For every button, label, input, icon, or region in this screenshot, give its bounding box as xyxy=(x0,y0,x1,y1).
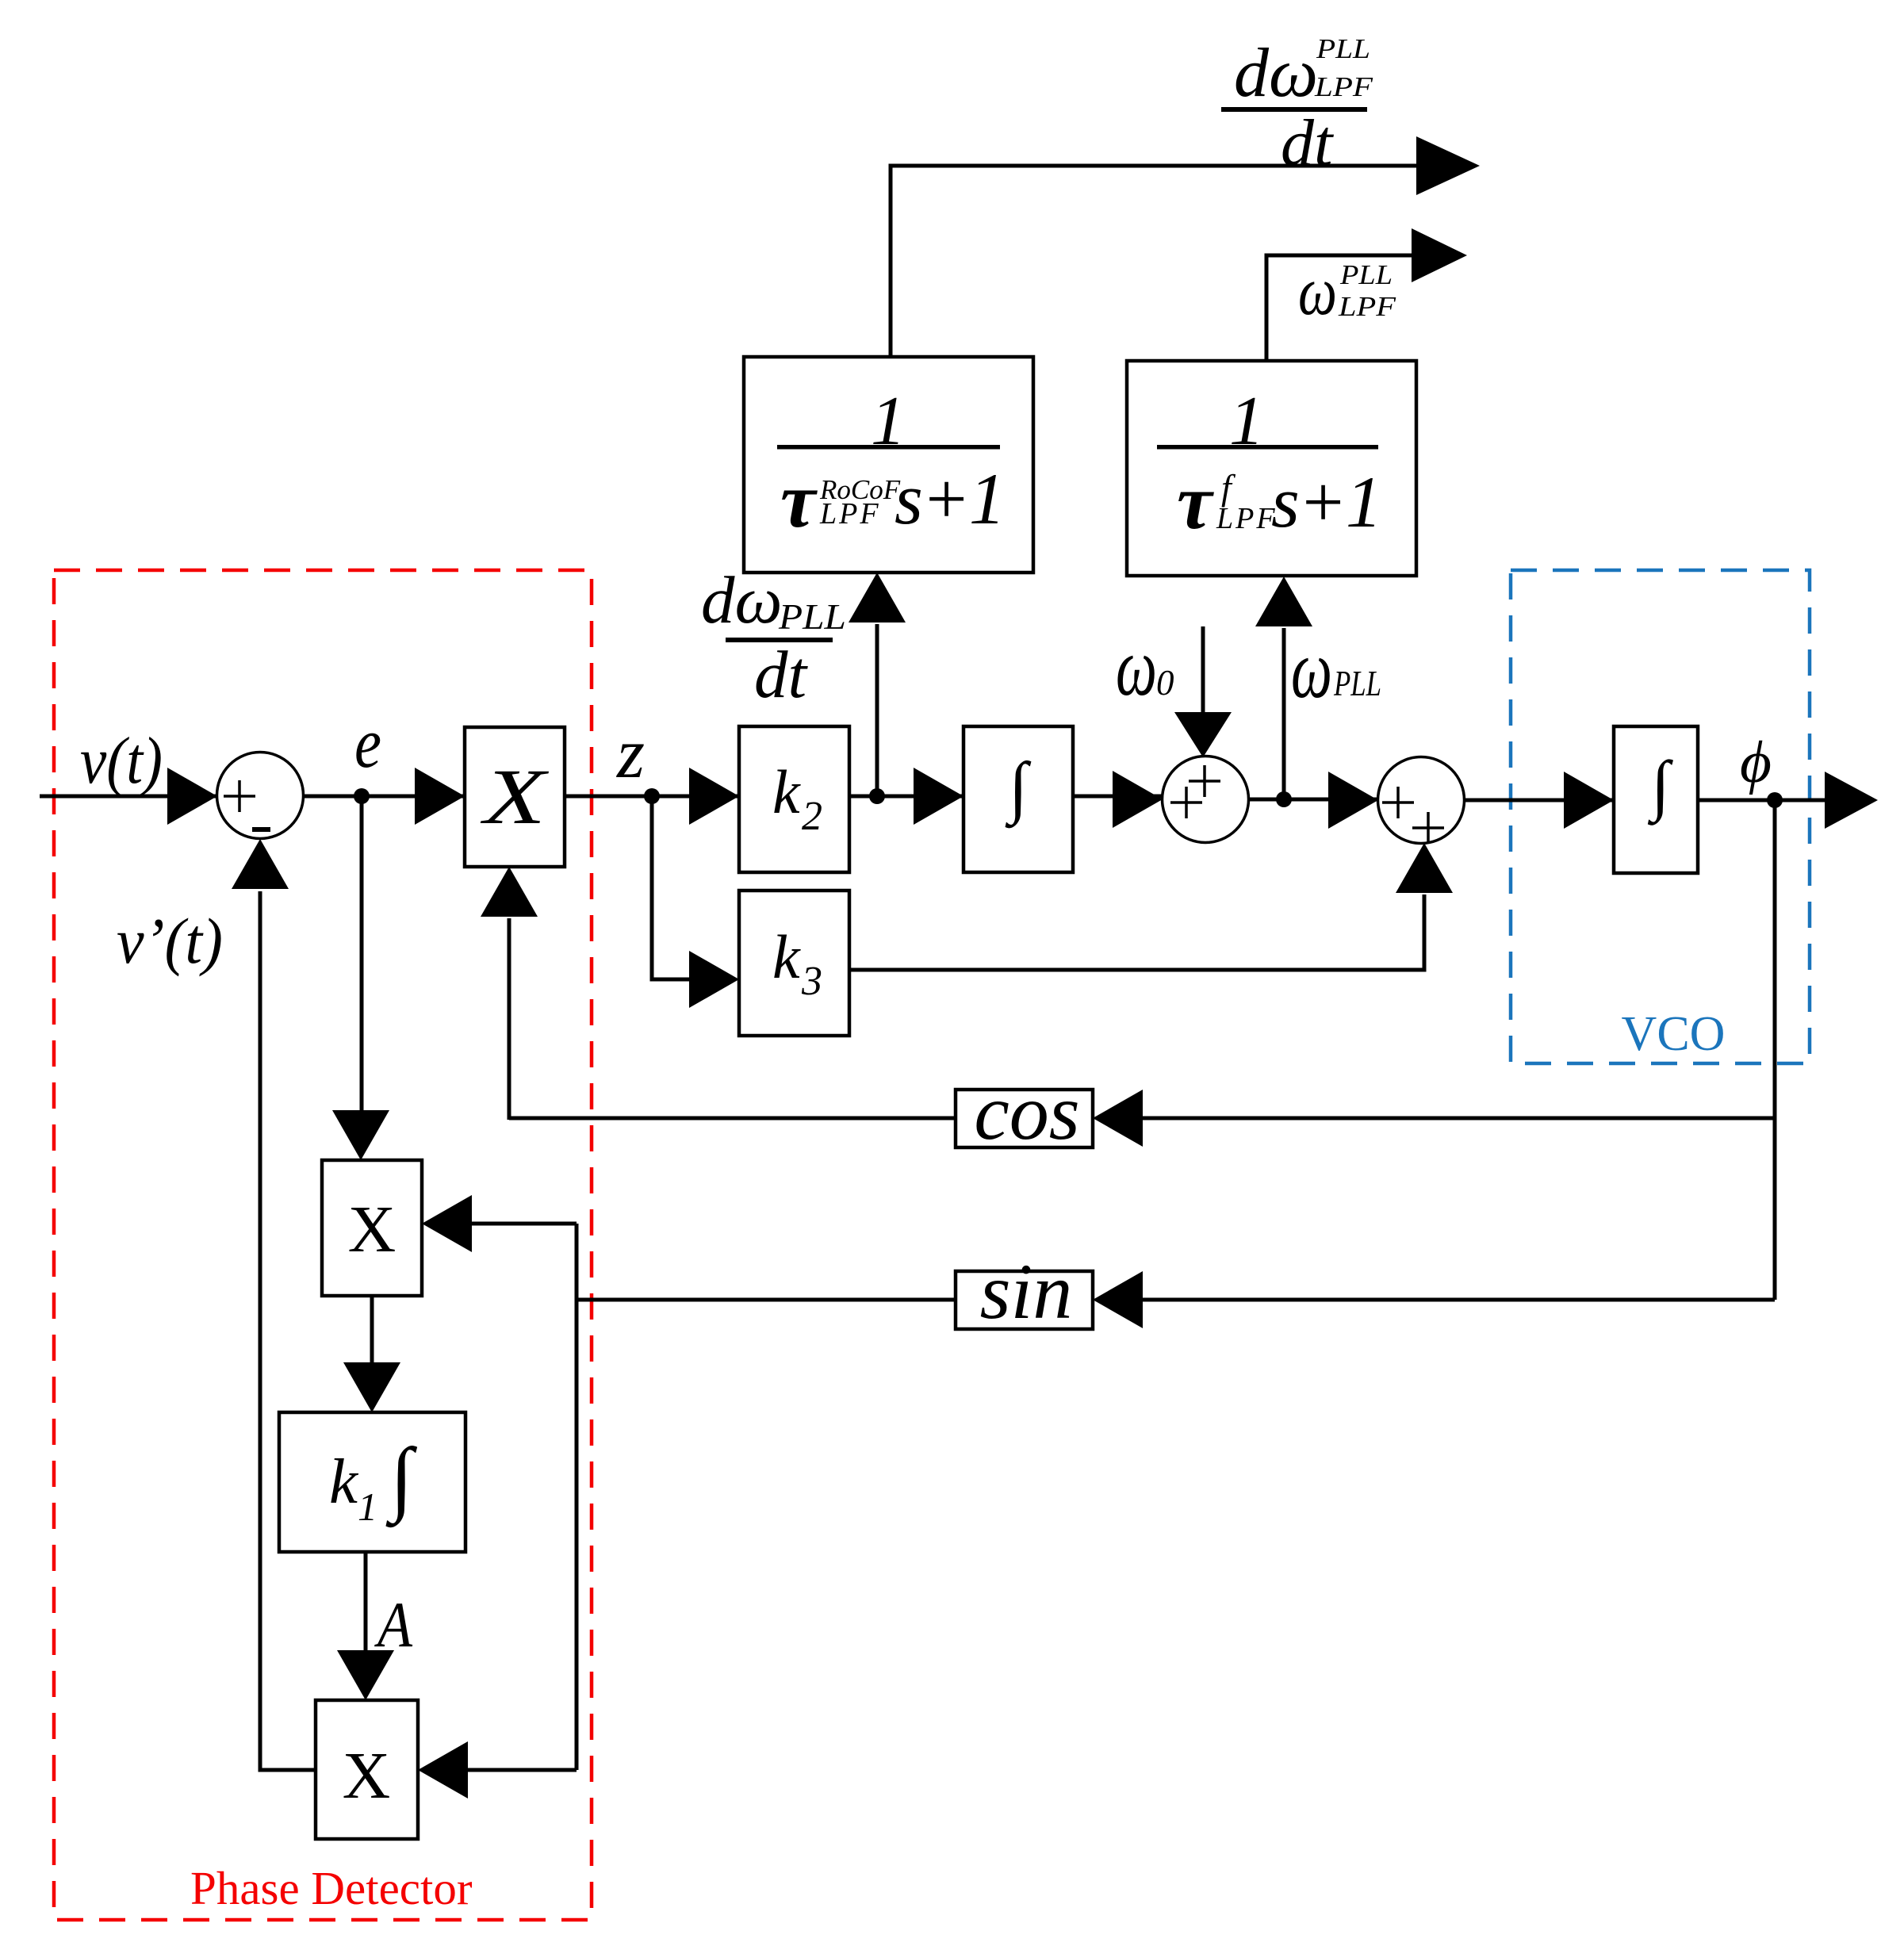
svg-text:3: 3 xyxy=(801,959,822,1004)
svg-text:LPF: LPF xyxy=(1216,502,1278,535)
svg-text:1: 1 xyxy=(358,1484,377,1529)
svg-text:PLL: PLL xyxy=(1316,33,1370,64)
svg-text:z: z xyxy=(615,714,645,793)
svg-text:PLL: PLL xyxy=(1339,259,1393,290)
svg-text:VCO: VCO xyxy=(1622,1007,1726,1061)
svg-text:LPF: LPF xyxy=(1338,291,1396,322)
svg-text:sin: sin xyxy=(980,1247,1073,1335)
svg-text:LPF: LPF xyxy=(819,497,881,531)
svg-text:PLL: PLL xyxy=(1333,663,1381,703)
svg-text:A: A xyxy=(374,1588,413,1661)
svg-text:ω: ω xyxy=(1291,622,1332,715)
svg-text:k: k xyxy=(329,1446,359,1517)
svg-text:LPF: LPF xyxy=(1314,71,1373,102)
svg-text:X: X xyxy=(480,753,550,841)
svg-text:dω: dω xyxy=(701,563,783,638)
svg-text:v’(t): v’(t) xyxy=(117,905,223,977)
svg-text:v(t): v(t) xyxy=(80,724,163,798)
svg-text:s+1: s+1 xyxy=(1271,462,1381,542)
svg-text:k: k xyxy=(772,922,801,991)
svg-text:PLL: PLL xyxy=(778,597,846,637)
svg-text:X: X xyxy=(343,1739,391,1813)
svg-text:dt: dt xyxy=(1281,106,1335,180)
svg-text:X: X xyxy=(348,1193,397,1266)
svg-text:ω: ω xyxy=(1298,252,1337,329)
svg-text:e: e xyxy=(354,704,381,783)
svg-text:∫: ∫ xyxy=(1647,748,1673,826)
svg-text:ϕ: ϕ xyxy=(1740,730,1772,795)
svg-text:dω: dω xyxy=(1234,35,1318,112)
svg-text:Phase Detector: Phase Detector xyxy=(190,1862,473,1914)
svg-text:2: 2 xyxy=(802,794,822,839)
svg-text:s+1: s+1 xyxy=(895,458,1004,539)
svg-text:0: 0 xyxy=(1156,663,1174,703)
svg-text:k: k xyxy=(772,757,801,826)
svg-text:cos: cos xyxy=(974,1068,1079,1156)
svg-text:τ: τ xyxy=(780,456,818,544)
svg-text:τ: τ xyxy=(1177,458,1214,546)
svg-text:dt: dt xyxy=(754,638,809,712)
svg-text:ω: ω xyxy=(1116,620,1157,713)
